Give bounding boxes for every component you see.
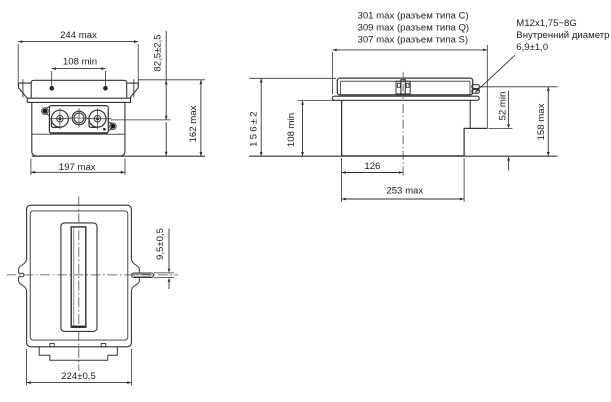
svg-text:Внутренний диаметр: Внутренний диаметр: [516, 30, 609, 41]
side view: lid: [337, 78, 472, 95]
bottom view: ear tab: [132, 273, 154, 278]
front view: mounting holes: [49, 86, 54, 91]
front view: flange bottom bar: [27, 98, 130, 102]
svg-text:126: 126: [364, 161, 380, 172]
front view: dim 108 extension lines to holes: [51, 71, 53, 88]
bottom view: base tiers: [39, 347, 117, 360]
front view: flange block: [31, 80, 127, 97]
side view: step top extension right: [489, 127, 513, 129]
svg-text:M12x1,75−8G: M12x1,75−8G: [516, 18, 577, 29]
bottom view: slot inner bottom thick: [71, 326, 85, 328]
front view: connector C crosshair: [87, 118, 111, 120]
front view: dim 244 extension lines: [17, 44, 19, 86]
side view: dim 126/253 left extension: [341, 158, 343, 202]
side view: fitting top extension line: [480, 86, 558, 88]
svg-text:244 max: 244 max: [60, 30, 97, 41]
svg-text:6,9±1,0: 6,9±1,0: [516, 42, 548, 53]
svg-text:197 max: 197 max: [59, 162, 96, 173]
side view: lid inner line: [341, 80, 470, 82]
front view: connector A crosshair: [49, 118, 71, 120]
front view: connector A inner ring and pin: [57, 116, 63, 122]
front view: connector C outer circle: [89, 110, 106, 127]
bottom view: base notch right: [101, 344, 106, 347]
side view: body right upper edge: [469, 100, 471, 128]
front view: connector B crosshair: [70, 117, 89, 119]
bottom view: inner outline: [30, 211, 128, 340]
bottom view: vertical centerline: [78, 197, 80, 372]
svg-text:162 max: 162 max: [188, 105, 199, 142]
svg-text:224±0,5: 224±0,5: [61, 371, 96, 382]
front view: connector plate: [49, 106, 108, 134]
bottom view: left ear slot notch: [19, 273, 24, 276]
front view: plate bottom thick edge: [50, 132, 108, 134]
svg-text:309 max (разъем типа Q): 309 max (разъем типа Q): [358, 22, 470, 33]
side view: dim 301/309/307 line: [333, 49, 488, 51]
side view: leader line to fitting: [475, 55, 515, 92]
front view: body bottom extension line: [32, 155, 205, 157]
bottom view: left flange bump: [19, 258, 27, 273]
front view: connector C corner: [89, 119, 98, 128]
side view: body outline: [342, 100, 488, 156]
front view: connector axis extension line: [111, 119, 171, 121]
bottom view: outer body: [27, 205, 132, 347]
side view: latch centerline: [402, 72, 404, 99]
svg-text:9,5±0,5: 9,5±0,5: [155, 228, 166, 260]
front view: connector A corner: [51, 119, 60, 128]
bottom view: horizontal centerline: [7, 274, 179, 276]
side view: flange plate bar: [332, 96, 479, 100]
front view: chain line to bottom: [165, 122, 167, 156]
svg-text:82,5±2,5: 82,5±2,5: [153, 34, 164, 71]
front view: main body: [32, 102, 125, 155]
front view: flange right wing: [127, 83, 139, 98]
side view: plate bottom extension: [298, 100, 335, 102]
front view: flange top extension line: [139, 79, 206, 81]
front view: flange right bend line: [133, 79, 135, 97]
bottom view: ear tab slot: [134, 274, 150, 276]
front view: right bolt tab: [108, 122, 112, 130]
front view: flange left wing: [19, 83, 32, 98]
front view: right bolt: [110, 123, 117, 130]
side view: latch clamp: [396, 81, 410, 94]
bottom view: slot outer: [61, 223, 97, 332]
side view: body centerline: [402, 104, 404, 177]
side view: bottom extension line long: [249, 155, 557, 157]
bottom view: slot inner line: [73, 228, 75, 326]
front view: body seam line: [32, 133, 125, 135]
side view: cable fitting tabs: [472, 85, 480, 89]
front view: left bolt tab: [45, 107, 49, 115]
side view: dim 301 extension lines: [332, 52, 334, 95]
front view: index pin dot: [103, 128, 106, 131]
svg-text:52 min: 52 min: [497, 92, 508, 121]
front view: left bolt: [42, 108, 49, 115]
bottom view: right flange bump upper: [131, 258, 139, 272]
bottom view: right flange bump lower: [131, 278, 139, 292]
front view: flange left bend line: [22, 79, 24, 97]
front view: connector C inner ring and pin: [94, 116, 100, 122]
front view: connector B circles: [72, 111, 86, 125]
svg-text:108 min: 108 min: [63, 57, 97, 68]
front view: connector A outer circle: [51, 110, 68, 127]
side view: dim 156 extension top: [249, 77, 336, 79]
bottom view: ear extension lines: [154, 272, 174, 274]
svg-text:253 max: 253 max: [386, 185, 423, 196]
svg-text:108 min: 108 min: [286, 113, 297, 147]
svg-text:156±2: 156±2: [248, 109, 259, 147]
svg-text:301 max (разъем типа C): 301 max (разъем типа C): [358, 11, 469, 22]
svg-text:158 max: 158 max: [536, 103, 547, 140]
bottom view: base notch left: [50, 344, 54, 347]
svg-text:307 max (разъем типа S): 307 max (разъем типа S): [358, 35, 469, 46]
bottom view: slot inner: [71, 227, 86, 327]
